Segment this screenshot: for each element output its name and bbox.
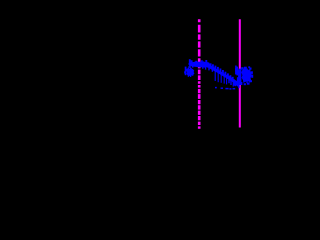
right cluster [241,69,251,82]
data over line [239,69,242,84]
blue data curve [189,63,236,82]
pre-line smear [235,66,237,75]
dashed vertical line [198,19,201,129]
left cluster [185,67,187,76]
solid vertical line [239,19,241,127]
error bars down [202,64,204,69]
low marks [215,87,217,89]
error bars up [189,59,191,64]
